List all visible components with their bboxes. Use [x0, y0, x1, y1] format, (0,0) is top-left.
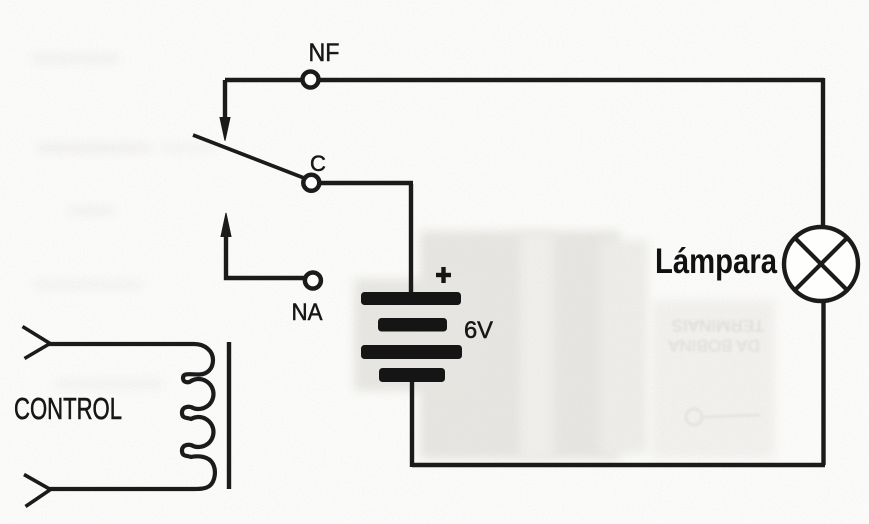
- svg-text:Lámpara: Lámpara: [655, 242, 777, 281]
- svg-text:CONTROL: CONTROL: [14, 391, 122, 426]
- switch armature blade: [193, 135, 304, 178]
- contact NF: [303, 72, 319, 88]
- battery plus sign: [436, 267, 451, 283]
- relay coil K1: [48, 344, 215, 489]
- arrowhead down (armature pivot): [220, 118, 230, 141]
- svg-text:6V: 6V: [464, 317, 493, 344]
- faint page smudges left side: [33, 54, 215, 388]
- wire NA arrow stem: [226, 234, 304, 278]
- relay core bar: [227, 342, 231, 489]
- faint mirrored text TERMINAIS: [668, 316, 765, 425]
- wire bottom rail: [412, 463, 825, 467]
- coil top terminal: [23, 327, 51, 359]
- wire top rail NF to lamp: [225, 78, 824, 82]
- svg-text:NA: NA: [292, 299, 323, 326]
- svg-text:NF: NF: [309, 39, 340, 67]
- lamp L1: [784, 227, 858, 301]
- coil bottom terminal: [24, 475, 51, 507]
- wire switch pivot drop: [223, 80, 227, 121]
- svg-text:C: C: [310, 151, 326, 176]
- wire lamp bottom to corner: [821, 301, 825, 465]
- arrowhead up (NA): [221, 213, 231, 237]
- wire battery top lead: [409, 184, 413, 293]
- scan bleed-through grey patch: [420, 231, 620, 459]
- contact NA: [305, 273, 321, 289]
- lighter band inside patch: [520, 233, 554, 459]
- wire C contact to corner: [320, 181, 413, 185]
- contact C: [303, 175, 319, 191]
- wire right side down to lamp: [821, 78, 825, 227]
- battery B1 plates: [361, 292, 462, 382]
- wire battery bottom lead: [410, 380, 414, 467]
